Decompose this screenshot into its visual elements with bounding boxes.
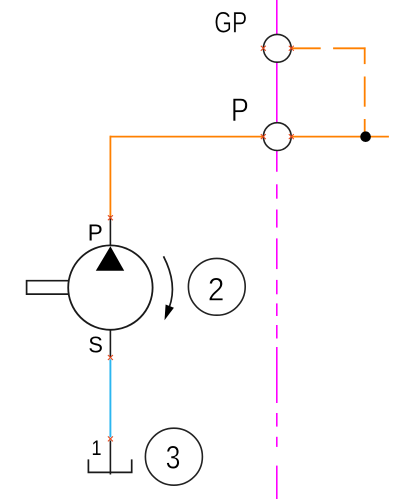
node X at P right: [289, 134, 294, 139]
svg-text:1: 1: [92, 437, 102, 460]
svg-text:S: S: [88, 332, 103, 358]
svg-text:P: P: [88, 220, 103, 246]
wire: orange vertical drop to pump P port: [109, 136, 111, 217]
tank symbol: [88, 459, 131, 472]
rotation arrow arc: [164, 256, 173, 307]
svg-text:2: 2: [208, 271, 225, 307]
port GP circle: [263, 34, 291, 62]
wire: black stub into tank: [109, 441, 111, 475]
node X at GP right: [289, 46, 294, 51]
node: junction dot: [360, 131, 371, 142]
node X at GP left: [261, 46, 266, 51]
wire: black stub from pump S port: [109, 330, 111, 358]
pump flow triangle: [96, 246, 124, 270]
svg-text:P: P: [231, 92, 249, 128]
rotation arrowhead: [165, 305, 174, 321]
pump shaft: [27, 281, 69, 294]
wire: black stub into pump P port: [109, 216, 111, 246]
connection X markers: [108, 46, 294, 442]
wire: magenta centerline dash-dot segments below P: [276, 184, 278, 499]
svg-text:GP: GP: [214, 6, 247, 39]
svg-text:3: 3: [166, 440, 181, 476]
node X at pump P port: [108, 215, 113, 220]
wire: orange pressure line horizontal at P: [110, 136, 263, 138]
pump circle: [68, 245, 152, 329]
wire: magenta centerline vertical solid segment top: [276, 0, 278, 172]
node X at P left: [261, 134, 266, 139]
port P circle: [263, 123, 291, 151]
balloon circle 3: [145, 428, 202, 485]
balloon circle 2: [188, 258, 245, 315]
node X at pump S port: [108, 355, 113, 360]
wire: cyan suction line: [109, 359, 111, 437]
wire: orange dashed gauge line GP to junction, horizontal: [291, 47, 365, 136]
node X at tank port: [108, 436, 113, 441]
